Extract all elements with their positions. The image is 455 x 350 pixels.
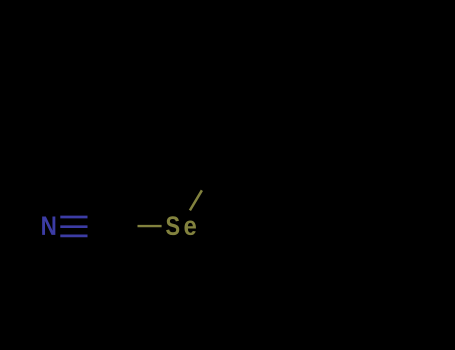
wire: carbon half of C-Se bond (black, invisible) <box>105 225 138 227</box>
bond C-Se (olive selenium half) <box>138 225 162 227</box>
bond Se-CH2 (olive selenium half, diagonal) <box>190 190 202 210</box>
benzene ring (black carbon, invisible on black) <box>214 156 304 231</box>
atom label N (blue nitrogen) <box>42 217 55 235</box>
wire: CH2 half of Se-CH2 bond (black, invisible) <box>202 170 214 190</box>
triple bond N#C (blue nitrogen half) <box>60 217 87 236</box>
atom label Se: S glyph (olive selenium) <box>166 216 179 235</box>
wire: carbon half of N#C triple bond (black, invisible on black) <box>88 217 106 236</box>
atom label Se: e glyph (olive selenium) <box>184 221 195 236</box>
